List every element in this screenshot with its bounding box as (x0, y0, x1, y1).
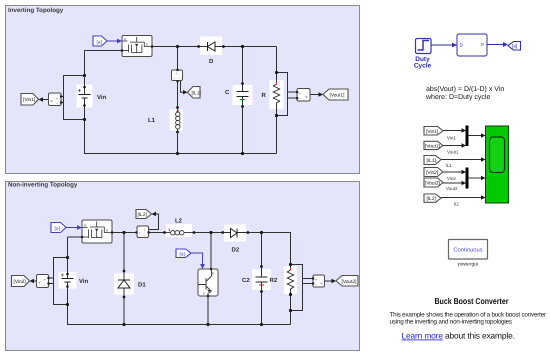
svg-text:[IL1]: [IL1] (192, 90, 201, 96)
svg-text:+: + (299, 92, 301, 96)
svg-text:[Vout2]: [Vout2] (342, 279, 357, 285)
svg-text:g: g (84, 223, 86, 227)
svg-text:using the inverting and non-in: using the inverting and non-inverting to… (390, 319, 512, 326)
svg-text:[a]: [a] (512, 44, 517, 50)
svg-text:This example shows the operati: This example shows the operation of a bu… (390, 312, 547, 319)
svg-text:Vin: Vin (97, 94, 107, 101)
svg-text:L1: L1 (148, 117, 156, 124)
svg-text:Vout2: Vout2 (446, 186, 458, 191)
svg-text:−: − (174, 77, 176, 81)
svg-text:R2: R2 (270, 277, 278, 284)
svg-text:C: C (225, 89, 230, 96)
svg-text:Vin1: Vin1 (447, 136, 456, 141)
svg-text:−: − (144, 234, 146, 238)
svg-text:Cycle: Cycle (414, 62, 432, 69)
svg-text:Il2: Il2 (454, 202, 459, 207)
svg-text:[IL2]: [IL2] (138, 212, 147, 218)
svg-text:g: g (124, 37, 126, 41)
svg-text:+: + (139, 231, 141, 235)
svg-text:[Vin2]: [Vin2] (426, 170, 438, 176)
svg-text:abs(Vout) = D/(1-D) x Vin: abs(Vout) = D/(1-D) x Vin (426, 85, 504, 93)
svg-text:[Vout1]: [Vout1] (330, 93, 345, 99)
svg-text:[IL2]: [IL2] (427, 196, 436, 202)
svg-text:[Vout2]: [Vout2] (425, 181, 440, 187)
svg-text:−: − (44, 284, 46, 288)
svg-text:[Vin1]: [Vin1] (23, 97, 35, 103)
svg-text:R: R (262, 92, 267, 99)
svg-text:Vout1: Vout1 (447, 150, 459, 155)
svg-text:[Vin2]: [Vin2] (14, 279, 26, 285)
svg-text:[a]: [a] (180, 252, 185, 258)
svg-text:D2: D2 (232, 247, 240, 254)
svg-text:+: + (56, 97, 58, 101)
svg-text:−: − (315, 283, 317, 287)
svg-text:−: − (179, 77, 181, 81)
svg-text:Learn more about this example.: Learn more about this example. (402, 331, 515, 341)
svg-text:+: + (44, 278, 46, 282)
svg-text:powergui: powergui (458, 262, 478, 268)
svg-text:Non-inverting Topology: Non-inverting Topology (8, 181, 78, 188)
svg-text:[Vout1]: [Vout1] (425, 144, 440, 150)
svg-text:+: + (175, 72, 177, 76)
svg-text:−: − (56, 102, 58, 106)
svg-text:where: D=Duty cycle: where: D=Duty cycle (425, 93, 490, 101)
svg-text:C2: C2 (242, 277, 250, 284)
svg-text:Buck Boost Converter: Buck Boost Converter (435, 296, 510, 306)
svg-text:[Vin1]: [Vin1] (426, 129, 438, 135)
svg-text:P: P (481, 43, 484, 48)
svg-text:Continuous: Continuous (453, 247, 482, 254)
svg-text:−: − (299, 97, 301, 101)
svg-text:Inverting Topology: Inverting Topology (8, 7, 64, 14)
svg-text:L2: L2 (175, 218, 183, 225)
svg-text:[IL1]: [IL1] (427, 158, 436, 164)
svg-text:D: D (209, 58, 214, 65)
svg-text:S: S (106, 229, 108, 233)
svg-text:D1: D1 (138, 282, 146, 289)
svg-text:Vin2: Vin2 (447, 176, 456, 181)
svg-text:IL1: IL1 (446, 163, 453, 168)
svg-text:Vin: Vin (79, 278, 89, 285)
svg-text:[a]: [a] (55, 226, 60, 232)
svg-text:S: S (146, 43, 148, 47)
svg-text:[a]: [a] (97, 39, 102, 45)
svg-text:+: + (315, 278, 317, 282)
